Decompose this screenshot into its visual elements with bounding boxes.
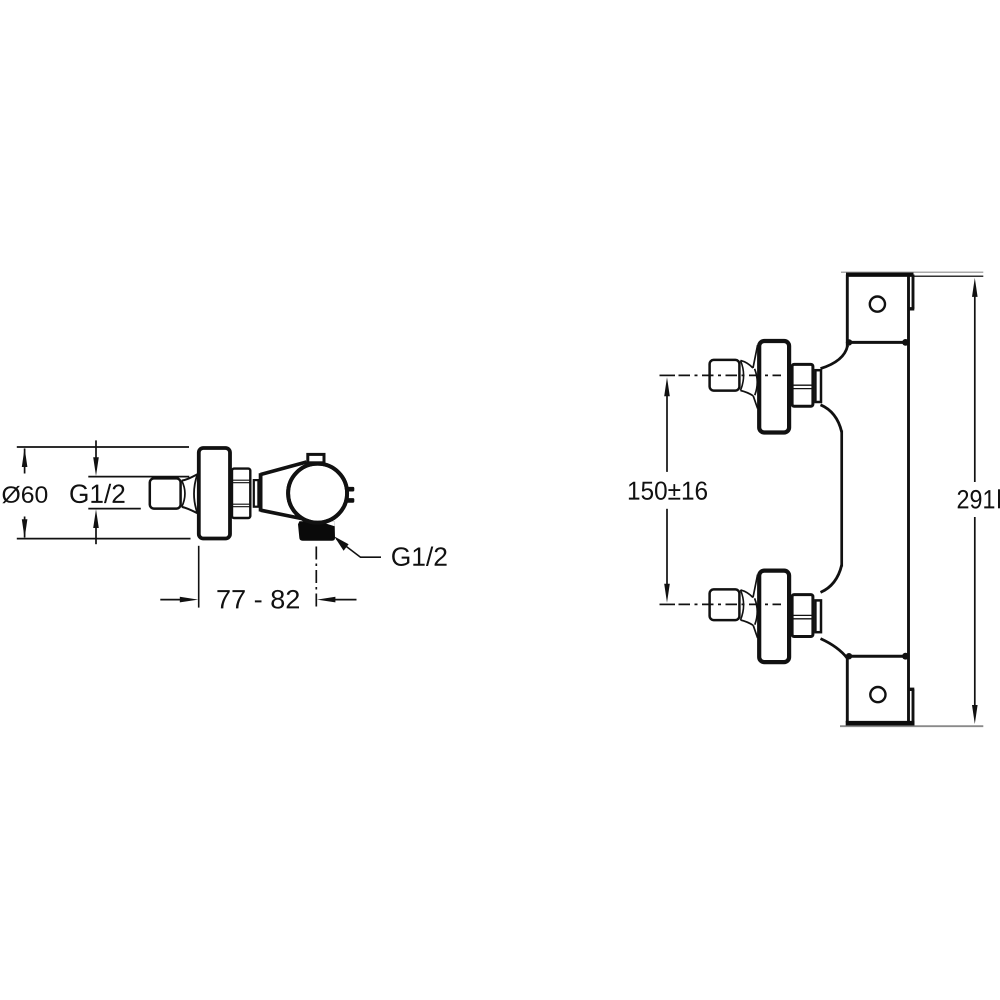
dim 77-82 extension line <box>198 546 200 608</box>
bottom valve bell waist arc <box>755 598 758 624</box>
nut facet line 4 <box>232 506 250 508</box>
bell bottom curve <box>182 507 198 513</box>
connection nut side view <box>232 469 250 518</box>
body left edge upper <box>846 275 849 348</box>
top valve bell waist arc <box>755 369 758 395</box>
top bracket tab right edge <box>912 275 915 309</box>
dim G1/2 arrow up <box>93 509 99 528</box>
cartridge cone body bottom edge <box>261 510 302 518</box>
bottom valve flange <box>759 571 789 663</box>
top valve nut facet line 1 <box>792 384 813 386</box>
body right edge <box>907 275 910 723</box>
label 77 - 82 <box>217 590 299 609</box>
top valve centerline tick <box>660 374 676 376</box>
dim 77-82 arrow right <box>180 597 198 603</box>
top valve bell top flare <box>753 345 758 368</box>
bottom valve bell top converge <box>741 590 754 598</box>
top tab on circle <box>308 454 324 462</box>
dim Ø60 vertical line top segment <box>24 449 26 474</box>
top bracket tab step <box>908 307 915 310</box>
top valve collar <box>815 370 821 402</box>
bottom bracket top edge <box>847 655 909 658</box>
bottom valve knob <box>710 589 740 620</box>
top valve nut facet line 2 <box>792 388 813 390</box>
dim 291 arrow up <box>972 278 978 297</box>
outlet white wedge <box>319 521 335 526</box>
shower outlet (black) <box>298 521 335 540</box>
dim Ø60 bottom extension line <box>17 538 191 540</box>
right tab on circle prong bottom <box>346 498 355 503</box>
dim G1/2 vertical line bottom segment <box>95 526 97 544</box>
bottom valve knob face arc <box>741 590 744 620</box>
extension line 291 bottom <box>840 725 983 727</box>
dim 150±16 vertical line bottom segment <box>666 509 668 590</box>
bell rim arc <box>194 474 197 513</box>
top valve bell bottom flare <box>753 396 757 409</box>
dim Ø60 arrow up <box>22 448 28 467</box>
bell top curve <box>182 474 198 480</box>
leader arrowhead G1/2 <box>334 536 348 550</box>
label 150±16 <box>629 481 707 499</box>
handle knob side view <box>150 478 181 508</box>
bottom valve bell bottom flare <box>753 625 757 638</box>
top valve centerline dash-dot <box>679 374 782 376</box>
bottom bracket tab step <box>908 688 915 691</box>
bottom valve centerline tick <box>660 603 676 605</box>
dim 291 arrow down <box>972 705 978 724</box>
valve stem collar side view <box>254 480 259 507</box>
top bracket screw hole <box>870 297 885 312</box>
dim 291 vertical line top segment <box>974 293 976 483</box>
wall flange (escutcheon) side view <box>199 448 230 539</box>
label G1/2 left <box>70 484 124 503</box>
top valve bell top converge <box>741 360 754 368</box>
nut facet line 2 <box>232 482 250 484</box>
dim 291 vertical line bottom segment <box>974 517 976 710</box>
bottom valve nut facet line 2 <box>792 618 813 620</box>
top valve knob <box>710 360 740 391</box>
bottom valve nut facet line 1 <box>792 614 813 616</box>
bottom valve bell top flare <box>753 575 758 598</box>
dim Ø60 top extension line <box>17 446 189 448</box>
dim 77-82 left segment <box>160 599 184 601</box>
top valve union nut <box>792 364 813 406</box>
bottom valve union nut <box>792 595 813 637</box>
bottom bracket screw hole <box>870 687 885 702</box>
dim 150±16 arrow up <box>664 377 670 396</box>
top bracket bottom edge junction dots <box>846 339 852 345</box>
top bracket top edge <box>846 272 914 276</box>
knob face arc <box>182 481 185 507</box>
dim Ø60 arrow down <box>22 519 28 538</box>
bottom valve boss upper curve <box>821 565 842 592</box>
body left edge lower <box>846 656 849 723</box>
dim 77-82 arrow left <box>317 597 335 603</box>
top valve bell bottom converge <box>741 391 754 396</box>
bottom bracket tab right edge <box>912 689 915 722</box>
bottom valve collar <box>815 600 821 632</box>
outlet centerline dash-dot <box>315 547 317 610</box>
body waist left edge <box>840 431 843 567</box>
nut facet line 1 <box>232 479 250 481</box>
leader line G1/2 <box>337 539 382 557</box>
top valve boss upper curve <box>821 346 848 369</box>
label 291 <box>958 490 995 509</box>
label Ø60 <box>2 486 47 503</box>
cartridge cone left edge <box>259 473 263 511</box>
dim 150±16 vertical line top segment <box>666 391 668 472</box>
right tab on circle prong top <box>346 487 355 492</box>
dim G1/2 vertical line top segment <box>95 440 97 459</box>
nut facet line 3 <box>232 503 250 505</box>
top valve boss lower curve <box>821 405 842 432</box>
top valve flange <box>759 341 789 433</box>
label G1/2 right <box>392 547 446 566</box>
bottom valve bell bottom converge <box>741 620 754 625</box>
clipped glyph at image edge <box>998 489 1000 508</box>
top bracket bottom edge <box>847 341 909 344</box>
mixer body circle outline overlay <box>288 464 347 523</box>
bottom valve centerline dash-dot <box>679 603 782 605</box>
dim G1/2 top extension line <box>88 476 189 478</box>
cartridge cone body top edge <box>261 462 307 475</box>
bottom valve boss lower curve <box>821 639 848 659</box>
bottom bracket bottom edge <box>846 721 915 726</box>
extension line 291 top <box>841 271 983 273</box>
dim G1/2 arrow down <box>93 457 99 476</box>
mixer body circle <box>288 464 347 523</box>
dim Ø60 vertical line bottom segment <box>24 517 26 538</box>
bottom bracket top edge junction dots <box>846 653 852 659</box>
top valve knob face arc <box>741 361 744 391</box>
dim G1/2 bottom extension line <box>88 508 141 510</box>
dim 150±16 arrow down <box>664 584 670 603</box>
dim 77-82 right segment <box>331 599 357 601</box>
